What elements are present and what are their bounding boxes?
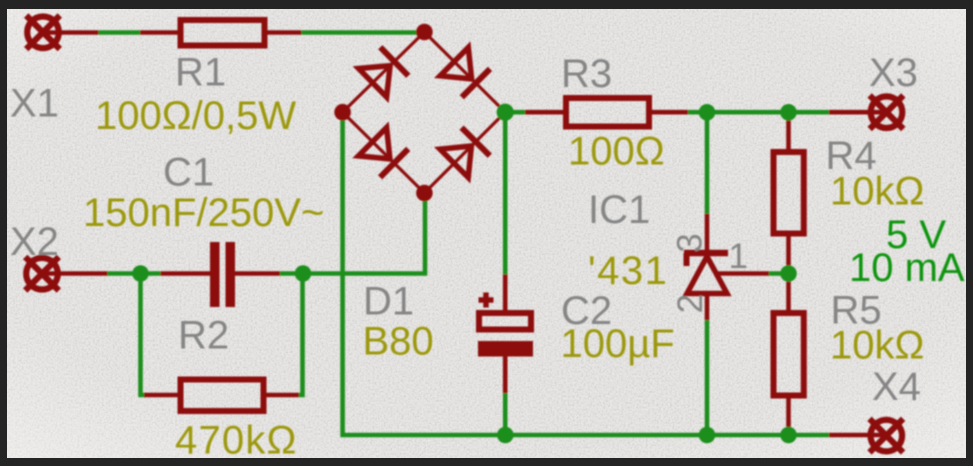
pin R5 bottom [786,396,791,433]
bridge D1 [334,24,513,202]
pin C1 left [161,271,211,276]
resistor R5 [774,313,804,396]
pin R2 right [264,393,300,398]
terminal X4 [870,419,904,453]
pin R3 left [525,110,566,115]
wire net AC1 R1 to bridge top [302,30,425,35]
pin R1 left [140,30,181,35]
svg-text:X1: X1 [10,82,59,126]
svg-text:R2: R2 [178,314,229,358]
wire net R2 right leg [299,274,303,396]
diode D1a L to T [359,47,409,97]
pin R4 bottom [786,234,791,274]
terminal X2 [25,257,59,291]
node bridge bottom [416,185,433,202]
IC IC1 TL431 shunt regulator [684,253,728,294]
svg-text:X3: X3 [869,51,918,95]
svg-text:IC1: IC1 [588,188,650,232]
node junction gnd IC1 [699,427,716,444]
svg-text:1: 1 [729,237,748,276]
wire bridge edge T-L [343,32,425,112]
pin C2 minus [503,357,508,394]
node junction VOUT-IC1 [699,104,716,121]
node bridge left [334,104,351,121]
wire net X2 to C1 [108,271,161,276]
diode D1d B to R [440,128,490,178]
svg-text:R1: R1 [175,51,226,95]
svg-text:10 mA: 10 mA [849,246,965,290]
wire net DC- left rail [343,112,829,435]
capacitor C1 [210,242,235,307]
svg-text:10kΩ: 10kΩ [830,170,924,214]
node junction VOUT-R4 [780,104,797,121]
diode D1b T to R [440,47,490,97]
svg-text:B80: B80 [363,320,434,364]
wire net C1 to bridge bottom [280,193,425,274]
svg-text:R3: R3 [561,52,612,96]
wire net VOUT R3 to X3 [688,110,829,115]
resistor R3 [566,98,649,127]
svg-text:100µF: 100µF [561,322,675,366]
pin X3 [829,110,887,115]
wire net C2 to ground rail [503,393,508,435]
svg-text:2: 2 [671,294,710,313]
terminal X3 [870,95,904,129]
terminal X1 [26,16,60,50]
wire bridge edge B-R [424,112,505,193]
pin X4 [829,433,886,438]
svg-text:470kΩ: 470kΩ [175,419,298,463]
node junction X2-C1-R2 [132,265,149,282]
wire net AC1 X1 to R1 [99,30,141,35]
wire bridge edge L-B [343,112,425,193]
diode D1c L to B [358,128,408,178]
svg-text:150nF/250V~: 150nF/250V~ [83,191,324,235]
svg-text:D1: D1 [363,280,414,324]
pin R4 top [786,112,791,152]
node bridge right DC+ [497,104,514,121]
node junction gnd C2 [497,427,514,444]
wire bridge edge T-R [424,32,505,112]
resistor R1 [181,20,265,46]
pin R1 right [265,30,302,35]
svg-text:3: 3 [671,233,710,252]
pin X1 [43,30,99,35]
wire net VOUT down to IC1 cathode [705,112,710,213]
pin R3 right [649,110,688,115]
svg-text:X4: X4 [872,365,921,409]
wire net R2 left leg [141,274,147,396]
pin X2 [42,271,108,276]
node bridge top [416,24,433,41]
pin IC1 anode 2 [705,294,710,321]
wire net IC1 anode to ground [705,320,710,435]
pin R2 left [144,393,181,398]
svg-text:10kΩ: 10kΩ [830,324,924,368]
resistor R4 [774,152,804,234]
pin IC1 cathode 3 [705,214,710,251]
pin C1 right [235,271,280,276]
pin IC1 ref 1 [718,271,769,276]
svg-text:C1: C1 [163,151,214,195]
resistor R2 [181,380,264,412]
wire net ref to divider [769,271,789,276]
wire net DC+ bridge to R3 [505,110,525,115]
wire net DC+ down to C2 [503,112,508,274]
svg-text:X2: X2 [10,220,59,264]
node junction gnd R5 [780,427,797,444]
svg-text:100Ω: 100Ω [568,130,665,174]
node junction C1-R2-bridge [295,265,312,282]
svg-text:100Ω/0,5W: 100Ω/0,5W [95,94,296,138]
svg-text:'431: '431 [588,249,668,293]
capacitor C2 [478,293,533,357]
node junction ref divider [780,265,797,282]
pin C2 plus [503,274,508,313]
pin R5 top [786,274,791,314]
